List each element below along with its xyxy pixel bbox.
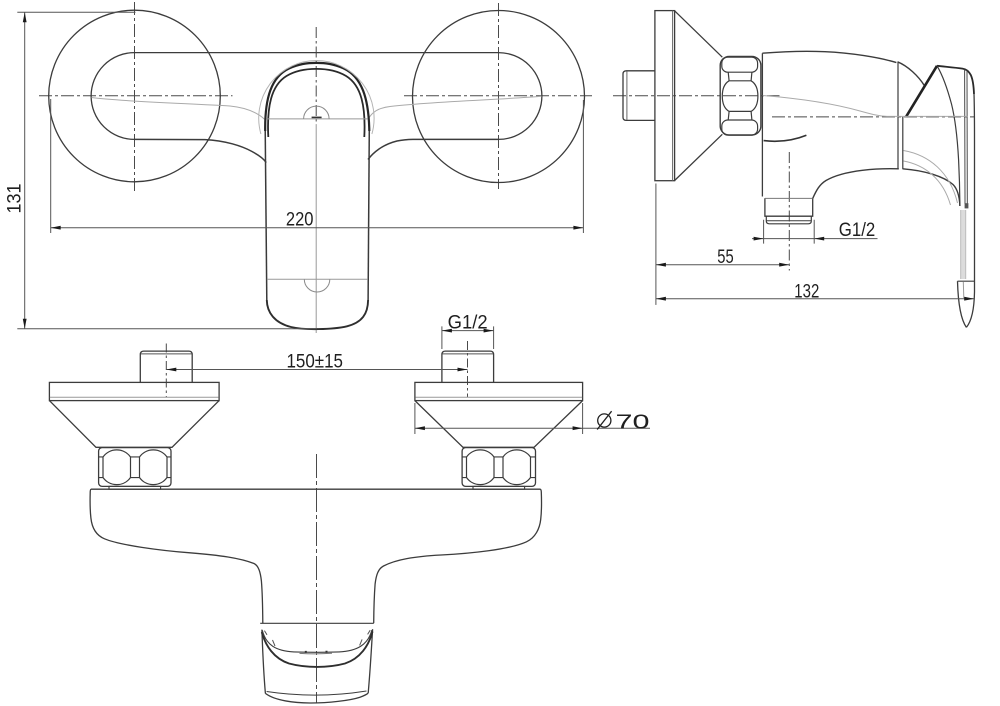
spout smile lower bold [262,632,373,667]
centerline left stub [165,344,167,398]
body top edge side [762,51,896,62]
handle top tick [312,116,322,118]
dim 131 line [24,12,26,329]
outlet lip [766,216,811,224]
dim 220 arrows [51,226,61,230]
handle side left [265,128,267,300]
lever top face [937,66,974,94]
hex nut side outer [720,56,761,135]
body right edge double [898,63,903,170]
dim dia70 extensions [415,403,583,434]
left plate inner line [50,396,219,398]
hex nut barrel [722,81,758,112]
escutcheon cone slant top [675,11,723,57]
dim 55 extension [655,184,657,305]
centerline bottom view vertical [316,454,318,703]
right pipe stub bottom view [442,351,494,382]
spout rim cross ticks right [360,630,371,645]
lever blade crease end blob [965,203,969,208]
dim 220 extension left [50,99,52,233]
lever joint light arc 2 [904,161,951,205]
dim 132 arrows [656,297,666,301]
body highlight contour right [368,96,541,119]
right escutcheon circle [413,11,585,183]
right escutcheon cone bottom view [415,401,583,448]
dim dia70 arrows [415,426,425,430]
lever blade gray band edges [961,210,966,279]
body slab right profile [374,489,542,623]
left nut facet B [140,450,168,485]
svg-text:132: 132 [794,282,819,303]
cartridge dome arc [898,62,925,86]
left pipe stub bottom view [140,351,192,382]
handle bottom face line [267,278,368,280]
centerline horizontal front view [39,95,592,97]
right washer [473,486,525,489]
dim 131 extension top [17,11,135,13]
left stub top inner line [141,353,192,355]
dim 55 line [656,264,789,266]
centerline inlet axis [613,95,780,97]
right nut facet B [503,450,531,485]
outlet shoulder line [765,197,813,199]
dim G1/2 bottom arrows [442,329,452,333]
body bottom edge left [135,139,267,162]
handle side right [368,128,369,300]
spout cup bottom [265,693,368,703]
hex nut bottom facet [722,120,758,135]
spout smile upper [262,630,372,652]
handle bottom semicircle detail [304,279,330,292]
outlet lip inner line [766,220,811,222]
lever blade tip [958,281,967,327]
lever blade crease lines [965,70,968,204]
body left end cap arc [91,53,134,140]
lever blade tip inner line [962,282,965,298]
spout cup right side [368,629,372,693]
wall pipe stub side [623,71,655,121]
body bottom edge right [368,139,499,159]
svg-text:G1/2: G1/2 [839,220,876,241]
left escutcheon circle [49,10,221,182]
dim 131 arrows [23,12,27,22]
centerline vertical left escutcheon [134,2,136,191]
svg-text:150±15: 150±15 [287,351,344,372]
escutcheon cone slant bottom [675,134,723,180]
body top edge [135,52,499,54]
left nut connectors [99,457,171,478]
svg-text:131: 131 [4,184,25,214]
body slab top edge [91,488,540,490]
left escutcheon cone bottom view [49,401,219,448]
dim 220 extension right [582,100,584,233]
spout rim top arc [267,691,367,695]
lever blade end cap line [958,280,975,282]
left hex nut outer [99,448,171,487]
handle bottom cap [267,300,368,329]
handle top semicircle detail [304,106,330,119]
spout mouth line [260,622,374,624]
lever blade gray band [961,210,966,279]
svg-text:G1/2: G1/2 [448,312,488,333]
dim G1/2 side extensions [764,220,815,244]
escutcheon plate inner edge [672,11,674,181]
handle inner cap arc [268,69,365,137]
right stub top inner line [442,353,493,355]
svg-text:55: 55 [717,247,733,268]
outlet box [765,198,813,216]
under lever curve [903,169,960,206]
body right end cap arc [499,53,542,140]
dim 131 extension bottom [17,328,317,330]
left washer [109,486,161,489]
right nut facet A [467,450,495,485]
dim 220 line [51,227,584,229]
dim 150 line [166,369,467,371]
wall pipe stub inner edge [626,71,628,120]
left escutcheon plate bottom view [49,382,219,400]
body underside sweep [813,169,899,199]
body light contour side [763,96,968,117]
left nut facet A [103,450,131,485]
lever blade front silhouette [937,66,960,206]
centerline vertical handle [315,27,317,125]
spout aerator slot bottom [300,652,333,655]
right escutcheon plate bottom view [415,382,583,400]
right nut connectors [462,457,535,478]
spout cup left side [262,630,266,694]
dim G1/2 bottom line [442,330,494,332]
lever blade right edge [966,94,974,327]
right plate inner line [415,396,582,398]
hex nut lower chamfer [728,111,752,120]
svg-text:220: 220 [286,210,314,231]
lever joint light arc 1 [904,151,958,204]
dim dia70 symbol [598,414,611,427]
escutcheon plate side [655,11,675,181]
body highlight contour left [92,98,265,120]
dim G1/2 side arrows [754,237,764,241]
hex nut top facet [722,57,758,72]
dim G1/2 bottom extensions [442,326,494,349]
dim 55 arrows [656,263,666,267]
spout rim cross ticks left [264,631,275,646]
dim 132 line [656,298,974,300]
body left edge [761,53,763,196]
body slab left profile [90,489,263,623]
dim 150 arrows [166,368,176,372]
body feature arc [764,135,807,141]
hex nut upper chamfer [728,72,752,81]
svg-text:70: 70 [616,411,650,433]
centerline outlet vertical [788,152,790,271]
handle outer faint arc [259,61,374,134]
right hex nut outer [462,448,535,487]
centerline vertical right escutcheon [498,3,500,189]
dim dia70 line [415,427,650,429]
lever diagonal [906,66,937,117]
centerline body axis [772,116,975,118]
dim G1/2 side line [752,238,878,240]
centerline right stub [467,341,469,398]
handle top cap arc [265,63,369,131]
handle top face line [267,118,368,120]
spout aerator ticks [306,651,327,653]
